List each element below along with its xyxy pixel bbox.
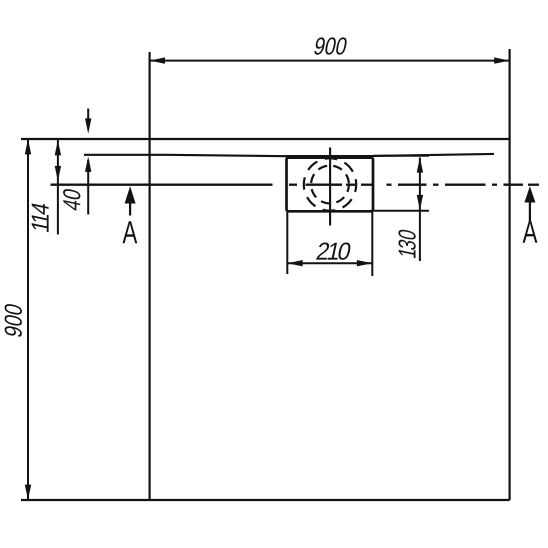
- rim waterline left: [84, 155, 287, 156]
- drain box: [287, 158, 374, 212]
- dimension 130: top arrowhead: [417, 157, 423, 172]
- dimension 130: line: [419, 158, 421, 262]
- drain vertical centerline: [329, 148, 331, 226]
- dimension 210: right extension: [371, 212, 373, 276]
- dimension 210: line: [287, 262, 372, 264]
- dimension 114: label: [32, 202, 49, 233]
- section line A-A dash-dot right part: [289, 184, 539, 186]
- dimension 40: lower arrowhead pointing up: [85, 157, 91, 172]
- dimension 114: top arrowhead: [55, 140, 61, 155]
- tray right edge extended up: [509, 49, 511, 500]
- dimension 900 top: right arrowhead: [494, 57, 509, 63]
- dimension 40: lower stem: [87, 160, 89, 215]
- dimension 210: right arrowhead: [357, 260, 372, 266]
- dimension 40: upper arrow stem: [87, 109, 89, 121]
- dimension 130: bottom extension: [373, 210, 429, 212]
- section arrow A left: [125, 186, 136, 203]
- dimension 900 left: label: [5, 303, 22, 338]
- dimension 130: label: [398, 228, 415, 258]
- section arrow A right: [524, 186, 535, 202]
- section label A right: [523, 221, 538, 243]
- dimension 900 left: bottom arrowhead: [25, 485, 31, 500]
- dimension 210: label: [316, 243, 352, 260]
- tray top edge with left extension: [21, 138, 510, 140]
- dimension 900 left: line: [27, 139, 29, 500]
- dimension 40: upper arrowhead pointing down: [85, 118, 91, 133]
- rim waterline over drain: [287, 155, 373, 157]
- rim waterline right: [373, 154, 494, 156]
- tray left edge extended up: [149, 52, 151, 500]
- dimension 130: top extension: [373, 155, 429, 157]
- drain outer dashed circle: [304, 158, 356, 210]
- dimension 900 top: label: [313, 37, 347, 54]
- dimension 900 top: line: [150, 60, 510, 62]
- dimension 114: line: [57, 139, 59, 235]
- dimension 900 top: left arrowhead: [150, 57, 165, 63]
- dimension 210: left extension: [286, 212, 288, 274]
- tray bottom edge with left extension: [21, 499, 510, 501]
- section line A-A solid left part: [51, 184, 273, 186]
- dimension 210: left arrowhead: [287, 260, 302, 266]
- section label A left: [122, 221, 137, 243]
- dimension 40: label: [63, 188, 80, 212]
- dimension 130: bottom arrowhead: [417, 195, 423, 210]
- drain inner dashed circle: [311, 166, 349, 204]
- dimension 900 left: top arrowhead: [25, 139, 31, 154]
- dimension 114: bottom arrowhead: [55, 166, 61, 181]
